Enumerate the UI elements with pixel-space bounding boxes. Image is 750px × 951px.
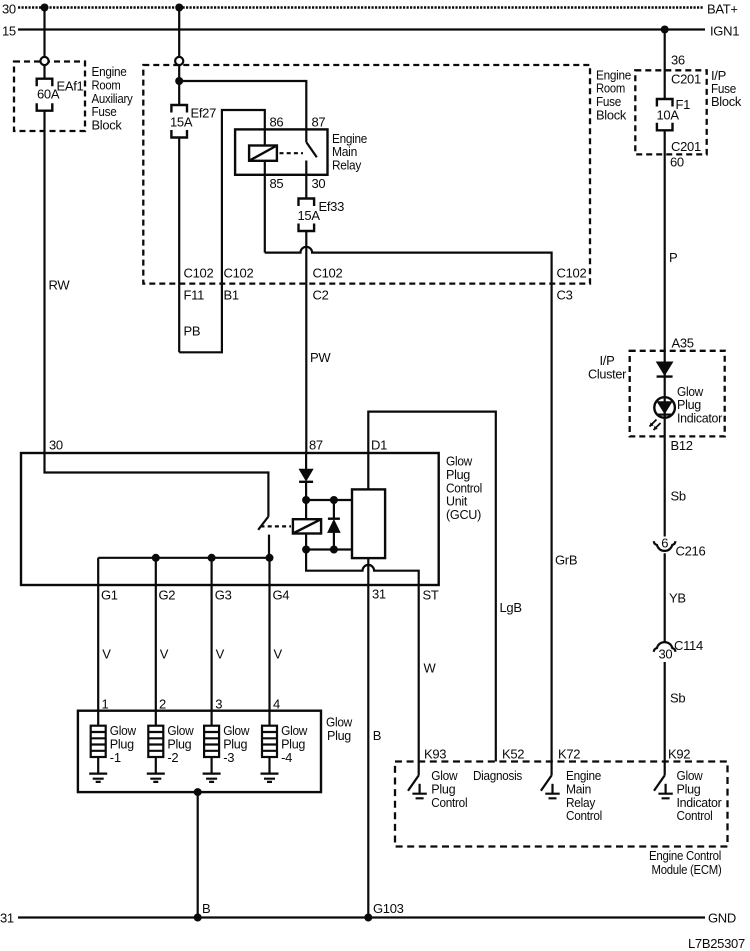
wire branch to relay pin 87 [179, 81, 306, 129]
glow plug 3 element [203, 726, 221, 782]
fuse Ef33 15A [299, 199, 315, 232]
svg-text:60: 60 [670, 155, 684, 170]
svg-text:6: 6 [661, 536, 668, 551]
svg-text:Ef27: Ef27 [191, 106, 217, 121]
box I/P Fuse Block (dashed) [635, 70, 706, 154]
svg-text:Module (ECM): Module (ECM) [652, 862, 722, 877]
svg-text:YB: YB [669, 591, 686, 606]
connector C102 labels row [184, 266, 587, 303]
svg-text:PB: PB [184, 324, 201, 339]
svg-text:C114: C114 [674, 638, 703, 653]
GCU actuator dashed link [261, 525, 292, 527]
svg-text:Sb: Sb [670, 691, 685, 706]
diode in cluster [657, 362, 673, 377]
wire Sb to C114 (YB) [664, 553, 666, 642]
svg-text:Relay: Relay [332, 157, 362, 172]
box Glow Plug (solid) [78, 711, 321, 792]
wire labels V (glow plug feeds) [102, 646, 282, 661]
svg-text:A35: A35 [672, 336, 694, 351]
svg-text:C102: C102 [224, 266, 254, 281]
svg-text:31: 31 [372, 586, 386, 601]
relay coil leads (pin 86 / pin 85) [264, 129, 266, 252]
glow plug 3 label [223, 723, 250, 765]
svg-text:30: 30 [312, 176, 326, 191]
svg-text:1: 1 [102, 697, 109, 712]
svg-text:BAT+: BAT+ [707, 2, 738, 17]
svg-text:F11: F11 [184, 287, 205, 302]
svg-text:V: V [274, 646, 283, 661]
LED glow plug indicator [650, 397, 675, 430]
svg-text:Diagnosis: Diagnosis [473, 768, 523, 783]
wire through cluster [664, 351, 666, 537]
fuse EAf1 60A [37, 79, 53, 111]
wire relay 85 to C3/K72 with hop over PW line [265, 247, 552, 762]
label Engine Main Relay [332, 131, 367, 173]
svg-text:V: V [160, 646, 169, 661]
junction branch to relay 87 [175, 77, 183, 85]
wire coil bottom to ST with hop over 31 line [306, 550, 419, 762]
svg-text:G103: G103 [373, 901, 404, 916]
svg-text:B1: B1 [224, 287, 239, 302]
svg-text:V: V [102, 646, 111, 661]
ECM K93 label [431, 768, 467, 810]
svg-text:C201: C201 [671, 71, 701, 86]
wire Ef33 to GCU 87 (PW) [305, 231, 307, 453]
svg-text:31: 31 [0, 911, 14, 926]
wire glow plug common to G103 [197, 792, 199, 917]
GCU freewheel diode [328, 500, 340, 550]
bus GND [18, 916, 705, 918]
GCU switch lower contact to G bus [268, 535, 270, 558]
svg-text:C102: C102 [313, 266, 343, 281]
wire Ef27 feed from BAT+ [178, 8, 180, 353]
svg-text:2: 2 [159, 697, 166, 712]
svg-text:C201: C201 [671, 139, 701, 154]
svg-text:Plug: Plug [327, 728, 351, 743]
svg-text:Ef33: Ef33 [319, 199, 345, 214]
svg-text:36: 36 [671, 52, 685, 67]
svg-text:D1: D1 [371, 437, 387, 452]
svg-text:C2: C2 [313, 287, 329, 302]
connector C201 labels [670, 52, 701, 169]
svg-text:Cluster: Cluster [588, 366, 627, 381]
svg-text:PW: PW [310, 350, 331, 365]
box Engine Room Auxiliary Fuse Block (dashed) [14, 62, 85, 132]
glow plug 2 label [167, 723, 194, 765]
svg-text:IGN1: IGN1 [710, 24, 739, 39]
connector C114 pin 30 [654, 642, 676, 652]
svg-text:C3: C3 [557, 287, 573, 302]
svg-text:RW: RW [49, 278, 71, 293]
bus BAT+ (hot at all times, dotted) [18, 6, 703, 8]
svg-text:Block: Block [92, 117, 123, 132]
svg-text:Indicator: Indicator [677, 411, 723, 426]
GCU driver block [352, 489, 385, 558]
GCU internal feed wire from pin 30 to switch [45, 453, 269, 517]
ECM K92 label [677, 768, 723, 823]
GCU pin 87 wire and diode [299, 453, 313, 519]
relay box Engine Main Relay [235, 129, 327, 174]
wire C114 to K92 (Sb) [664, 662, 666, 762]
glow plug 4 label [281, 723, 308, 765]
glow plug 1 element [89, 726, 107, 782]
svg-text:30: 30 [49, 437, 63, 452]
box I/P Cluster (dashed) [630, 351, 725, 437]
junction on BAT+ at Ef27 feed [175, 4, 183, 12]
wire RW: BAT+ to fuse EAf1 to GCU pin 30 [43, 8, 45, 454]
box Engine Room Fuse Block (dashed) [143, 65, 590, 284]
svg-text:-3: -3 [223, 750, 234, 765]
svg-text:G4: G4 [273, 587, 290, 602]
relay switch pin 87 to 30 [306, 129, 317, 198]
svg-text:87: 87 [309, 437, 323, 452]
connector (open circle) fuse block feed [175, 57, 183, 65]
ECM driver K92 [654, 762, 673, 799]
svg-text:15: 15 [2, 23, 16, 38]
svg-text:(GCU): (GCU) [446, 507, 481, 522]
svg-text:30: 30 [659, 647, 673, 662]
svg-text:3: 3 [215, 697, 222, 712]
svg-text:LgB: LgB [500, 600, 522, 615]
svg-text:4: 4 [273, 697, 280, 712]
svg-text:15A: 15A [298, 208, 321, 223]
svg-text:Control: Control [677, 808, 713, 823]
ECM driver K72 [541, 762, 560, 799]
svg-text:Sb: Sb [671, 489, 686, 504]
svg-text:V: V [216, 646, 225, 661]
GCU relay coil [293, 519, 321, 533]
wire F11 to B1 loop (PB) [179, 110, 265, 352]
connector C216 pin 6 [654, 541, 676, 551]
svg-text:87: 87 [312, 115, 326, 130]
GCU junction row bottom [306, 534, 352, 550]
ECM K72 label [566, 768, 602, 823]
svg-text:G2: G2 [159, 587, 176, 602]
svg-text:C102: C102 [184, 266, 214, 281]
relay pin labels [270, 115, 326, 192]
bus IGN1 [18, 28, 705, 30]
junction on IGN1 [661, 26, 669, 34]
svg-text:Control: Control [431, 795, 467, 810]
label Glow Plug (box) [326, 715, 353, 743]
label Engine Room Fuse Block [596, 67, 631, 122]
svg-text:GND: GND [708, 911, 736, 926]
svg-text:W: W [424, 661, 437, 676]
svg-text:30: 30 [2, 1, 16, 16]
svg-text:K72: K72 [558, 747, 580, 762]
glow plug 4 element [261, 726, 279, 782]
junction G103 on GND [364, 914, 372, 922]
svg-text:G3: G3 [215, 587, 232, 602]
svg-text:C102: C102 [557, 266, 587, 281]
svg-text:Block: Block [596, 107, 627, 122]
svg-text:C216: C216 [676, 544, 706, 559]
glow plug 1 label [110, 723, 137, 765]
svg-text:F1: F1 [676, 97, 691, 112]
connector (open circle) EAf1 feed [40, 57, 48, 65]
label Engine Control Module (ECM) [649, 848, 722, 877]
svg-text:Control: Control [566, 808, 602, 823]
svg-text:K52: K52 [502, 747, 524, 762]
svg-text:K93: K93 [424, 747, 446, 762]
box ECM (dashed) [395, 762, 728, 847]
label Glow Plug Control Unit (GCU) [446, 454, 482, 522]
svg-text:15A: 15A [170, 115, 193, 130]
svg-text:85: 85 [270, 176, 284, 191]
glow plug pin labels [102, 697, 281, 712]
fuse F1 10A [657, 99, 673, 130]
label Glow Plug Indicator [677, 384, 723, 426]
svg-text:ST: ST [423, 587, 439, 602]
relay coil [249, 146, 277, 161]
svg-text:P: P [669, 250, 677, 265]
svg-text:Engine Control: Engine Control [649, 848, 721, 863]
GCU junction row top [306, 499, 352, 501]
ECM driver K93 [408, 762, 427, 799]
GCU pin labels bottom [101, 586, 439, 602]
svg-text:K92: K92 [668, 747, 690, 762]
glow plug 2 element [147, 726, 165, 782]
svg-text:-4: -4 [281, 750, 292, 765]
wire I/P fuse feed from IGN1 [664, 30, 666, 351]
GCU relay switch blade [258, 517, 268, 530]
svg-text:Block: Block [711, 94, 742, 109]
svg-text:-2: -2 [167, 750, 178, 765]
relay actuator dashed link [280, 152, 304, 154]
svg-text:G1: G1 [101, 587, 118, 602]
label I/P Fuse Block [711, 68, 742, 109]
box GCU (solid) [21, 453, 439, 585]
svg-text:86: 86 [270, 115, 284, 130]
svg-text:B12: B12 [671, 438, 693, 453]
junction on BAT+ at RW [41, 4, 49, 12]
GCU G bus [98, 558, 270, 726]
svg-text:EAf1: EAf1 [57, 79, 84, 94]
label Engine Room Auxiliary Fuse Block [92, 64, 134, 132]
junction B on GND [194, 914, 202, 922]
svg-text:B: B [373, 728, 381, 743]
svg-text:B: B [202, 901, 210, 916]
svg-text:GrB: GrB [555, 553, 577, 568]
ECM pin labels [424, 747, 690, 762]
label I/P Cluster [588, 353, 627, 381]
wire D1 to Diagnosis K52 [368, 412, 496, 762]
svg-text:-1: -1 [110, 750, 121, 765]
wire 31 to G103 [367, 558, 369, 917]
svg-text:L7B25307: L7B25307 [688, 936, 745, 951]
fuse Ef27 15A [171, 105, 187, 138]
GCU pin labels top [49, 437, 387, 452]
